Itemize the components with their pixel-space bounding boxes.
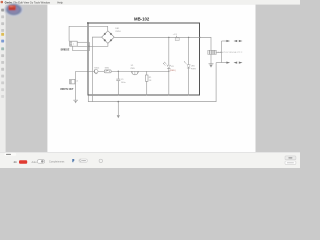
white document page [47, 5, 255, 153]
svg-text:LED: LED [191, 65, 196, 67]
node VOUT+ connector flags [234, 40, 238, 42]
bottom status bar [0, 152, 300, 168]
connector J1 DC input [70, 41, 78, 46]
LED D6 branch [163, 37, 176, 95]
node VOUT- connector flags [234, 62, 238, 64]
wire (GND return below frame) [88, 63, 216, 102]
node F (LED1 junction) [168, 71, 169, 72]
wire (DC+ rail) [114, 36, 200, 38]
node E (C1 tap) [118, 71, 119, 72]
board outline frame [88, 23, 200, 95]
LED D7 branch [184, 37, 196, 95]
wire (DC+ to polyfuse) [200, 37, 211, 50]
svg-text:MB-102: MB-102 [134, 17, 150, 22]
app logo badge top-left [4, 3, 23, 17]
ground tick under J2 [73, 100, 78, 103]
menu bar [0, 0, 300, 5]
svg-text:File Edit View Go Tools Window: File Edit View Go Tools Window [13, 0, 50, 4]
wire (J1 pin to bridge bottom) [77, 44, 108, 47]
svg-text:PWR: PWR [191, 68, 196, 70]
wire (jog below J1) [73, 42, 90, 50]
wire (output fork) [216, 51, 221, 53]
node D (rail/frame junction) [87, 71, 88, 72]
wire (lower output stub) [216, 62, 227, 64]
bridge rectifier DB1 [102, 31, 115, 44]
resistor R1 [145, 71, 152, 95]
svg-text:44: 44 [14, 160, 17, 164]
connector J2 USB out [70, 71, 79, 100]
svg-text:SS14: SS14 [94, 68, 100, 70]
wire (J1 pin to node) [77, 41, 89, 43]
node G (GND tap) [118, 101, 120, 103]
diode D5 [94, 68, 100, 74]
node A (frame top-left junction) [87, 22, 89, 24]
node H (LED1 top junction) [168, 37, 169, 38]
node B (J1 net junction) [89, 46, 90, 47]
wire (upper output stub) [222, 40, 228, 42]
svg-text:Help: Help [57, 0, 63, 4]
node I (LED2 top junction) [188, 37, 189, 38]
wire (bridge minus return) [92, 37, 101, 102]
window canvas background [0, 0, 300, 168]
svg-text:BRIDGE: BRIDGE [61, 48, 70, 51]
node C (DC+ at frame edge) [199, 37, 201, 39]
capacitor C1 [116, 71, 120, 95]
left tool strip [0, 5, 6, 153]
ground arrow at node G [117, 102, 120, 119]
svg-text:USB 5V OUT: USB 5V OUT [60, 88, 74, 91]
wire (AC loop top: J1 to bridge top) [69, 26, 108, 41]
fuse F1 [173, 34, 180, 40]
svg-text:(RED): (RED) [170, 70, 176, 72]
svg-text:2W10: 2W10 [115, 31, 121, 33]
bottom-left tab [4, 153, 16, 156]
regulator U1 (7805) [130, 65, 138, 75]
svg-text:Auto: Auto [32, 161, 38, 164]
ground [209, 64, 214, 68]
wire (polyfuse to ground) [210, 54, 212, 63]
polyfuse PF1 [208, 50, 243, 54]
wire (5V rail) [76, 70, 169, 72]
switch SW1 [104, 68, 111, 73]
svg-text:Completeness: Completeness [49, 160, 65, 163]
bottom-right controls [285, 156, 296, 160]
